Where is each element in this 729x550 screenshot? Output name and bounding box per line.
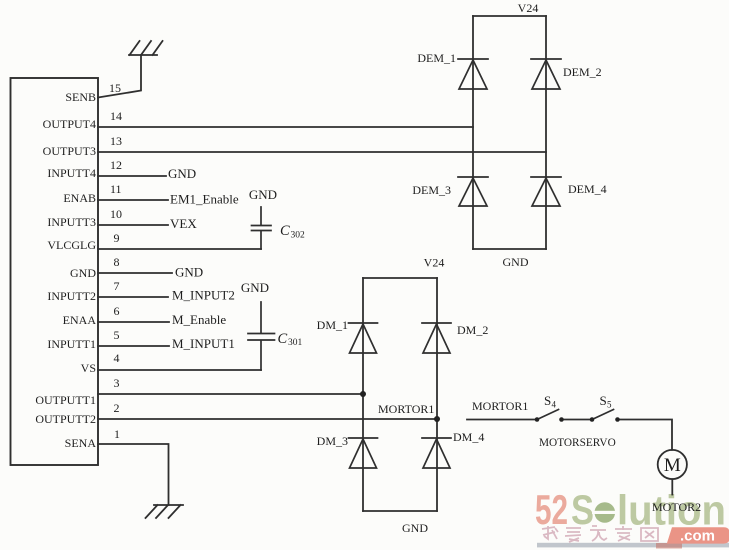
svg-text:DEM_3: DEM_3 (412, 183, 451, 197)
pin 15 wire (SENB) (98, 55, 141, 98)
wire S5 to motor (618, 420, 673, 450)
svg-text:OUTPUTT1: OUTPUTT1 (35, 393, 96, 407)
switch S4 arm (537, 410, 559, 420)
capacitor C301 (248, 302, 275, 370)
diode DEM_2 (531, 59, 561, 89)
wire MORTOR1 to switch S4 (467, 419, 537, 421)
IC U1 body (11, 78, 99, 465)
diode DEM_1 (458, 59, 488, 89)
pin 13 wire OUTPUT3 (98, 151, 546, 153)
pin 10 wire (98, 224, 168, 226)
switch S5 terminal dots (590, 417, 595, 422)
IC pin name labels (35, 90, 96, 450)
svg-text:DM_1: DM_1 (317, 318, 348, 332)
svg-text:GND: GND (168, 166, 196, 181)
svg-text:INPUTT3: INPUTT3 (47, 215, 96, 229)
pin 9 wire (98, 248, 261, 250)
IC pin numbers (109, 81, 122, 441)
pin 4 wire VS (98, 369, 261, 371)
capacitor C302 (252, 207, 272, 249)
top bridge right wire (545, 16, 547, 249)
svg-text:14: 14 (110, 109, 122, 123)
svg-text:S: S (600, 393, 607, 408)
pin 1 wire SENA (98, 444, 169, 505)
svg-text:GND: GND (249, 187, 277, 202)
pin 11 wire (98, 199, 168, 201)
svg-text:ENAA: ENAA (63, 313, 97, 327)
motor M1 circle (658, 450, 687, 479)
bottom bridge right wire (436, 278, 438, 511)
svg-text:4: 4 (552, 400, 557, 410)
svg-text:8: 8 (114, 255, 120, 269)
svg-text:VLCGLG: VLCGLG (47, 238, 96, 252)
svg-text:5: 5 (607, 400, 612, 410)
svg-text:GND: GND (402, 521, 428, 535)
svg-text:EM1_Enable: EM1_Enable (170, 192, 239, 207)
svg-text:302: 302 (291, 231, 306, 241)
pin 2 wire OUTPUTT2 (98, 418, 437, 420)
wire motor to MOTOR2 (671, 479, 673, 494)
svg-text:V24: V24 (518, 1, 539, 15)
svg-text:OUTPUTT2: OUTPUTT2 (35, 412, 96, 426)
svg-text:GND: GND (241, 280, 269, 295)
svg-text:12: 12 (110, 158, 122, 172)
switch S5 arm (592, 410, 614, 420)
svg-text:15: 15 (109, 81, 121, 95)
svg-text:11: 11 (110, 182, 122, 196)
pin 6 wire (98, 321, 169, 323)
ground (bottom chassis) (146, 505, 184, 518)
bottom bridge GND wire (363, 510, 437, 512)
pin 8 wire (98, 272, 172, 274)
svg-text:SENA: SENA (65, 436, 97, 450)
svg-text:GND: GND (70, 266, 96, 280)
wire S4 to S5 (562, 419, 593, 421)
svg-text:M_INPUT1: M_INPUT1 (172, 336, 235, 351)
svg-text:301: 301 (288, 338, 303, 348)
svg-text:MORTOR1: MORTOR1 (472, 399, 528, 413)
svg-text:13: 13 (110, 134, 122, 148)
svg-text:ENAB: ENAB (63, 191, 96, 205)
svg-text:GND: GND (175, 265, 203, 280)
svg-text:1: 1 (114, 427, 120, 441)
diode DEM_4 (531, 177, 561, 206)
svg-text:DEM_4: DEM_4 (568, 182, 607, 196)
pin 5 wire (98, 345, 169, 347)
svg-text:MORTOR1: MORTOR1 (378, 402, 434, 416)
svg-text:9: 9 (114, 231, 120, 245)
net labels right of IC (168, 166, 239, 351)
diode DEM_3 (458, 177, 488, 206)
svg-text:DM_3: DM_3 (317, 434, 348, 448)
pin 12 wire (98, 175, 166, 177)
svg-text:INPUTT1: INPUTT1 (47, 337, 96, 351)
watermark red wedge (656, 543, 682, 549)
svg-text:5: 5 (114, 328, 120, 342)
svg-text:INPUTT4: INPUTT4 (47, 166, 96, 180)
svg-text:DM_2: DM_2 (457, 323, 488, 337)
diode DM_3 (349, 438, 378, 468)
svg-text:S: S (544, 393, 551, 408)
ground (top chassis) (129, 41, 163, 55)
svg-text:4: 4 (114, 351, 120, 365)
svg-text:3: 3 (114, 376, 120, 390)
top bridge: V24 rail wire (473, 15, 546, 17)
pin 7 wire (98, 296, 168, 298)
svg-text:V24: V24 (424, 256, 445, 270)
svg-text:DEM_1: DEM_1 (417, 51, 456, 65)
svg-text:C: C (278, 331, 288, 347)
diode DM_2 (422, 323, 451, 353)
svg-text:OUTPUT3: OUTPUT3 (43, 144, 96, 158)
watermark underline bar (537, 543, 729, 548)
svg-text:.com: .com (680, 527, 715, 544)
svg-text:M_INPUT2: M_INPUT2 (172, 288, 235, 303)
node OUTPUTT1 junction dot (360, 391, 366, 397)
svg-text:10: 10 (110, 207, 122, 221)
svg-text:S: S (571, 486, 594, 533)
svg-text:VEX: VEX (170, 216, 197, 231)
svg-text:GND: GND (503, 255, 529, 269)
svg-text:M_Enable: M_Enable (172, 312, 226, 327)
svg-text:DEM_2: DEM_2 (563, 65, 602, 79)
watermark .com box (667, 527, 729, 543)
svg-text:7: 7 (114, 279, 120, 293)
svg-text:MOTOR2: MOTOR2 (652, 500, 701, 514)
svg-text:SENB: SENB (65, 90, 96, 104)
switch S4 terminal dots (535, 417, 540, 422)
top bridge left wire (472, 16, 474, 249)
svg-text:MOTORSERVO: MOTORSERVO (539, 437, 616, 449)
node OUTPUTT2 / MORTOR1 junction dot (434, 416, 440, 422)
svg-text:OUTPUT4: OUTPUT4 (43, 117, 96, 131)
svg-text:6: 6 (114, 304, 120, 318)
svg-text:VS: VS (81, 361, 96, 375)
bottom bridge left wire (362, 278, 364, 511)
diode DM_1 (349, 323, 378, 353)
svg-text:2: 2 (114, 401, 120, 415)
top bridge bottom GND wire (473, 248, 546, 250)
svg-text:M: M (664, 455, 681, 476)
diode DM_4 (422, 438, 451, 468)
pin 3 wire OUTPUTT1 (98, 393, 363, 395)
watermark 52Solution logo (535, 486, 726, 534)
pin 14 wire OUTPUT4 (98, 126, 473, 128)
svg-text:INPUTT2: INPUTT2 (47, 289, 96, 303)
svg-text:52: 52 (535, 486, 568, 533)
svg-text:DM_4: DM_4 (453, 430, 484, 444)
bottom bridge: V24 rail wire (363, 277, 437, 279)
watermark chinese characters (542, 526, 658, 542)
svg-text:C: C (280, 223, 290, 239)
